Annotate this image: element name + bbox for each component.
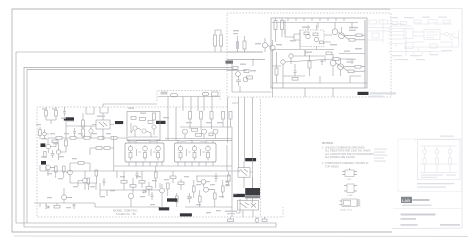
TO package top view (342, 199, 357, 207)
wire (46, 107, 65, 124)
resistor R43 (139, 181, 145, 184)
svg-text:TOP VIEWS: TOP VIEWS (325, 165, 339, 168)
resistor R7 (54, 205, 60, 208)
resistor R31 vertical (200, 112, 203, 120)
transistor Q2 (56, 150, 60, 154)
bias network dashed box U101 (300, 30, 324, 47)
label text faded 2 (369, 96, 383, 98)
diode D1 (46, 206, 49, 209)
resistor R10 (96, 147, 102, 150)
ghost transistor circle 1 (445, 32, 449, 36)
wire (83, 107, 94, 138)
wire ground bus left (34, 203, 160, 207)
wire driver-to-main drops (168, 97, 253, 168)
label PN201 dark (358, 92, 369, 95)
transistor Q27 in U1 (128, 145, 133, 161)
resistor R30 vertical (189, 112, 192, 120)
ghost inset cell 1 (423, 146, 427, 173)
revision column faded (374, 149, 387, 150)
resistor R112 emitter (355, 66, 361, 69)
K4 contact (240, 203, 256, 209)
border frame faded bottom right (392, 227, 462, 230)
transistor Q41 (128, 193, 133, 198)
relay K3 contact (240, 169, 248, 176)
IC package U-A top view (345, 170, 354, 177)
resistor R9 (95, 170, 98, 176)
input connector J2 (41, 161, 46, 165)
wire input board bus (158, 96, 228, 143)
label K1 dark (115, 121, 123, 124)
wire net C left loop (27, 69, 238, 223)
heatsink assembly outline (271, 18, 367, 88)
resistor R54 vertical (228, 175, 231, 181)
wire net B left loop (24, 67, 276, 227)
logo wordmark faded (413, 199, 430, 201)
label TP dark (159, 207, 169, 210)
transistor Q23 (152, 125, 156, 129)
wire (45, 142, 56, 153)
transistor Q103 (236, 72, 241, 77)
ghost wire rows top right (388, 32, 404, 40)
svg-text:DIP: DIP (348, 179, 352, 181)
transistor Q109 output PNP (338, 64, 344, 70)
title text line 3 faded (401, 224, 418, 226)
wire (100, 104, 157, 140)
transistor Q106 output NPN (332, 29, 338, 35)
transistor Q7 (89, 129, 93, 133)
capacitor C101 (236, 76, 241, 86)
TO inner (344, 200, 351, 205)
transistor Q102 (270, 45, 275, 50)
resistor R42 (130, 185, 136, 188)
svg-text:NOTES:: NOTES: (322, 141, 334, 145)
ghost header rects (392, 22, 398, 25)
resistor R116 (281, 21, 284, 30)
wire row (48, 138, 127, 144)
resistor R47 vertical (155, 172, 158, 178)
resistor R111 emitter (348, 70, 354, 73)
title block rule top (393, 208, 461, 210)
wire (124, 166, 232, 207)
cell ticks (415, 139, 449, 142)
capacitor C1 (51, 150, 55, 158)
capacitor C103 (294, 68, 297, 76)
wire (238, 36, 245, 52)
ghost inset cell 3 (448, 146, 452, 173)
capacitor C41 (215, 173, 218, 182)
resistor R25 (148, 121, 153, 124)
label RL dark (167, 198, 177, 201)
wire (276, 18, 283, 42)
resistor R49 vertical (176, 196, 179, 202)
ghost module box 2 (424, 30, 440, 40)
resistor R5 (63, 166, 66, 172)
transistor Q107 output NPN (339, 33, 345, 39)
capacitor C2 (73, 205, 76, 210)
wire (40, 127, 49, 139)
resistor R41 (121, 181, 127, 184)
label THERMAL tail grey (245, 195, 260, 198)
transistor Q3 (46, 165, 51, 170)
transistor Q25 (202, 129, 207, 134)
ghost text marks (390, 17, 452, 61)
label text faded (370, 92, 396, 94)
ghost inset label above (440, 136, 454, 137)
ghost component (372, 33, 379, 38)
resistor R2 (44, 152, 47, 158)
label OUT-A dark (233, 194, 245, 197)
wire (59, 143, 67, 160)
transistor Q101 (262, 43, 267, 48)
output rail (364, 20, 366, 88)
capacitor C6 (63, 109, 66, 116)
resistor R46 (178, 182, 184, 185)
resistor R55 on bus (228, 219, 234, 222)
transistor Q22 (142, 129, 146, 133)
wire (232, 59, 272, 93)
output relay box K4 (238, 201, 259, 211)
wire (283, 50, 365, 88)
wire (128, 123, 158, 137)
ghost inset rails (420, 146, 457, 173)
U1 pin stubs (129, 140, 162, 166)
wire (231, 217, 265, 223)
svg-text:TO-66, TO-3: TO-66, TO-3 (340, 210, 353, 212)
driver board dashed outline (227, 13, 391, 97)
resistor R51 vertical (199, 196, 202, 202)
designator smudges top-left (36, 108, 66, 125)
transistor Q4 (68, 170, 73, 175)
resistor R3 (65, 140, 68, 146)
resistor R50 vertical (193, 186, 196, 192)
resistor R56 on bus (262, 219, 267, 222)
capacitor C42 (136, 171, 139, 179)
transistor Q110 predriver (289, 54, 293, 58)
wire (215, 30, 221, 52)
transistor Q30 in U2 (178, 145, 183, 161)
U-A pins (342, 168, 357, 174)
ghost module box 1 (404, 29, 413, 39)
resistor R101 (214, 35, 217, 46)
resistor R120 (292, 78, 298, 81)
transistor Q111 predriver (281, 60, 285, 64)
title text line 1 faded (401, 214, 436, 216)
resistor R27 (192, 128, 198, 131)
wire (335, 22, 365, 40)
resistor R22 (212, 92, 219, 96)
ghost transistor circle 2 (450, 36, 454, 40)
title text line 2 faded (401, 218, 417, 220)
wire (46, 165, 55, 176)
ghost wire (388, 28, 459, 56)
heatsink top edge pin ticks (288, 18, 344, 21)
ghost wire (388, 24, 452, 52)
transistor Q32 in U2 (201, 145, 211, 161)
resistor R32 vertical (210, 112, 213, 120)
wire to relay K1 (66, 121, 96, 140)
transistor Q29 in U1 (151, 145, 160, 161)
main board dashed right edge (260, 99, 262, 217)
input board dashed sub-outline (157, 91, 220, 102)
designator text smudges driver board (233, 27, 362, 72)
capacitor C102 (321, 60, 324, 65)
relay box K3 (238, 168, 250, 178)
resistor R34 vertical (229, 112, 232, 120)
svg-text:LAB: LAB (402, 198, 410, 203)
ghost wire (368, 19, 390, 43)
capacitor C4 (103, 178, 106, 186)
resistor R115 (274, 21, 277, 30)
transistor Q104 (306, 34, 310, 38)
ghost small rects (414, 20, 421, 23)
wire (243, 198, 253, 217)
U2 pin stubs (178, 140, 213, 166)
op-amp IC U1 (125, 143, 164, 162)
transistor Q6 (62, 195, 67, 200)
resistor R19 vertical (45, 111, 48, 117)
capacitor C21 electrolytic (170, 93, 177, 97)
resistor R17 vertical (82, 120, 85, 127)
transistor Q45 on bus (255, 218, 259, 222)
diode D2 (188, 196, 191, 199)
border frame outer (12, 9, 392, 232)
transistor Q44 (204, 187, 209, 192)
transistor Q42 (160, 188, 165, 193)
transistor Q1 (46, 144, 51, 149)
transistor Q108 output PNP (330, 60, 336, 66)
border frame faded right top (390, 7, 462, 9)
resistor R110 emitter (356, 34, 362, 37)
resistor R44 (146, 187, 152, 190)
ghost inset caption line 2 (417, 187, 446, 188)
wire (64, 188, 72, 203)
logo underline faded (402, 205, 432, 206)
wire (265, 38, 273, 97)
wire (272, 23, 325, 84)
wire (165, 119, 232, 217)
wire stubs below heatsink (305, 88, 333, 97)
wire (90, 126, 92, 138)
ghost inset cell 2 (435, 146, 439, 173)
diode D3 (143, 190, 146, 193)
wire (227, 145, 253, 213)
IC package U-B top view (347, 184, 354, 193)
label BIAS dark (245, 158, 256, 161)
wire net A left loop (16, 52, 276, 223)
resistor R48 vertical (167, 183, 170, 189)
capacitor C5 (151, 192, 154, 200)
TO pins (340, 200, 361, 206)
wire rail mid (40, 141, 253, 188)
transistor Q31 in U2 (187, 145, 197, 161)
resistor R107 (313, 33, 318, 36)
resistor R20 vertical (55, 111, 58, 117)
resistor R105 (247, 76, 253, 79)
op-amp IC U2 (175, 143, 217, 162)
logo block (401, 197, 412, 203)
ghost rects near heatsink (369, 20, 377, 24)
wire (285, 20, 332, 42)
label CH-A dark (64, 117, 74, 120)
wire (102, 136, 114, 171)
wire (84, 163, 90, 171)
resistor R104 (244, 70, 249, 73)
wire top bus (272, 23, 358, 29)
designator smudges main board (41, 108, 224, 214)
resistor R45 (170, 176, 176, 179)
resistor R114 (333, 58, 339, 61)
wire (78, 171, 85, 190)
U-B pins (344, 186, 357, 192)
resistor R52 vertical (214, 193, 217, 199)
transistor Q26 (213, 129, 218, 134)
border frame faded right vertical (461, 8, 463, 228)
resistor R33 vertical (222, 112, 225, 120)
relay contacts (92, 122, 107, 127)
wire extra rails (70, 171, 230, 196)
resistor R53 vertical (222, 186, 225, 192)
resistor R26 (153, 113, 156, 120)
resistor R8 (87, 178, 90, 184)
wire (88, 148, 96, 190)
resistor R29 (209, 133, 213, 136)
terminal strip marks (226, 181, 230, 183)
svg-text:ALL DIODES ARE 1N4148: ALL DIODES ARE 1N4148 (325, 156, 355, 159)
filter box FL1 (127, 112, 160, 141)
transistor Q105 (314, 37, 318, 41)
wire (227, 30, 367, 83)
page bottom shadow (14, 235, 468, 238)
resistor R103 (233, 67, 238, 70)
resistor R102 (220, 35, 223, 46)
resistor R28 (196, 133, 202, 136)
wire (333, 54, 365, 76)
resistor R109 emitter (349, 39, 355, 42)
transistor Q28 in U1 (137, 145, 148, 161)
transistor Q8 (43, 132, 47, 136)
svg-text:SCHEM NO. 750: SCHEM NO. 750 (116, 212, 136, 216)
resistor R4 (55, 166, 58, 172)
capacitor C3 (73, 128, 76, 137)
resistor R108 (320, 41, 324, 44)
label FUSE dark (180, 213, 192, 216)
input connector J1 (41, 143, 46, 147)
text made-in note (225, 211, 237, 212)
ghost wire (413, 32, 424, 36)
resistor R117 (243, 41, 246, 49)
resistor R1 (52, 140, 58, 143)
capacitor C22 electrolytic (202, 92, 209, 96)
transistor Q24 (183, 129, 188, 134)
drawing number faded (440, 224, 460, 226)
resistor R113 (326, 52, 332, 55)
svg-text:L-DIP: L-DIP (347, 195, 353, 197)
resistor R23 (131, 117, 136, 120)
label THERMAL dark big (245, 188, 260, 195)
label K2 dark (156, 121, 166, 124)
relay box K1 (96, 120, 110, 129)
resistor R6 (78, 162, 84, 165)
node label NET1 (226, 61, 234, 64)
ghost box 2 inner (426, 32, 438, 38)
resistor R24 (140, 118, 146, 121)
wire (56, 163, 78, 183)
ghost inset schematic box (418, 140, 461, 180)
ghost inset caption line 1 (417, 183, 454, 184)
resistor R118 (275, 68, 278, 75)
resistor R119 (308, 61, 311, 68)
resistor row R12-R16 (56, 137, 62, 140)
main board dashed outline (37, 107, 283, 217)
resistor R11 (104, 147, 110, 150)
transistor Q21 (133, 126, 137, 130)
ghost inset interior text rows (421, 175, 443, 176)
title block cell outline faint (398, 139, 462, 192)
transistor Q43 (201, 179, 206, 184)
resistor R106 (304, 32, 309, 35)
transistor Q5 (83, 178, 88, 183)
resistor R18 vertical (82, 129, 85, 136)
input board component row label R21 (161, 92, 168, 95)
resistor R35 vertical (39, 130, 42, 136)
wire (189, 193, 191, 203)
